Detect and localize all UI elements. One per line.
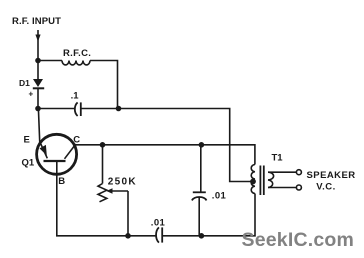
svg-text:T1: T1 <box>272 152 284 163</box>
wire: down to capacitor .01 <box>200 145 202 193</box>
capacitor .1 <box>75 102 81 116</box>
node: collector / 250K junction <box>100 142 106 148</box>
svg-text:D1: D1 <box>19 78 30 88</box>
wire: emitter lead from node down <box>38 109 47 159</box>
node: .01 to bottom rail <box>199 233 205 239</box>
wire: secondary top lead <box>268 171 296 173</box>
diode D1 <box>33 61 44 109</box>
capacitor .01 (series in bottom rail) <box>156 227 162 242</box>
transformer T1 secondary <box>268 172 274 187</box>
potentiometer 250K body <box>98 184 107 202</box>
node: collector / .01 junction <box>199 142 205 148</box>
node: RFC drop joins .1 rail <box>116 106 122 112</box>
svg-text:R.F.C.: R.F.C. <box>63 48 91 59</box>
svg-text:.01: .01 <box>212 191 227 202</box>
svg-text:V.C.: V.C. <box>316 182 336 193</box>
svg-text:Q1: Q1 <box>22 157 35 168</box>
svg-text:C: C <box>73 135 80 146</box>
transistor Q1 <box>37 134 77 174</box>
transformer T1 primary <box>251 165 255 194</box>
potentiometer wiper arrow <box>106 188 128 236</box>
svg-text:SeekIC.com: SeekIC.com <box>242 229 355 251</box>
wire: down to potentiometer <box>102 145 104 184</box>
wire: secondary bottom lead <box>268 187 296 189</box>
capacitor .01 (vertical) <box>192 192 207 200</box>
wire: node to capacitor .1 <box>38 108 75 110</box>
node: RFC/D1 junction <box>35 58 41 64</box>
svg-text:.1: .1 <box>71 90 80 101</box>
terminal: speaker bottom <box>296 185 301 190</box>
wire: junction to RFC <box>38 60 62 62</box>
emitter arrow (PNP) <box>40 145 47 156</box>
svg-text:E: E <box>24 135 30 146</box>
wire: RFC to right corner, down to node B <box>90 61 118 109</box>
node: diode / .1 rail junction <box>35 106 41 112</box>
svg-text:R.F. INPUT: R.F. INPUT <box>12 16 61 27</box>
wire: collector rail <box>76 145 255 165</box>
wire: bottom rail right part, up to transformer <box>162 194 255 236</box>
inductor R.F.C. <box>62 61 90 65</box>
signal flow arrow <box>35 35 40 42</box>
wire: input vertical <box>37 30 39 61</box>
wire: capacitor .01 to bottom rail <box>198 197 200 236</box>
svg-text:+: + <box>29 90 34 99</box>
svg-text:250K: 250K <box>108 176 137 187</box>
terminal: speaker top <box>296 170 301 175</box>
wire: capacitor .1 to corner at right <box>81 109 253 182</box>
transformer T1 core <box>260 166 263 196</box>
node: wiper to bottom rail <box>125 233 131 239</box>
svg-text:SPEAKER: SPEAKER <box>307 170 356 181</box>
node: transformer tap <box>250 179 256 185</box>
svg-text:B: B <box>58 176 65 187</box>
wire: base lead down and bottom rail left part <box>57 161 156 236</box>
